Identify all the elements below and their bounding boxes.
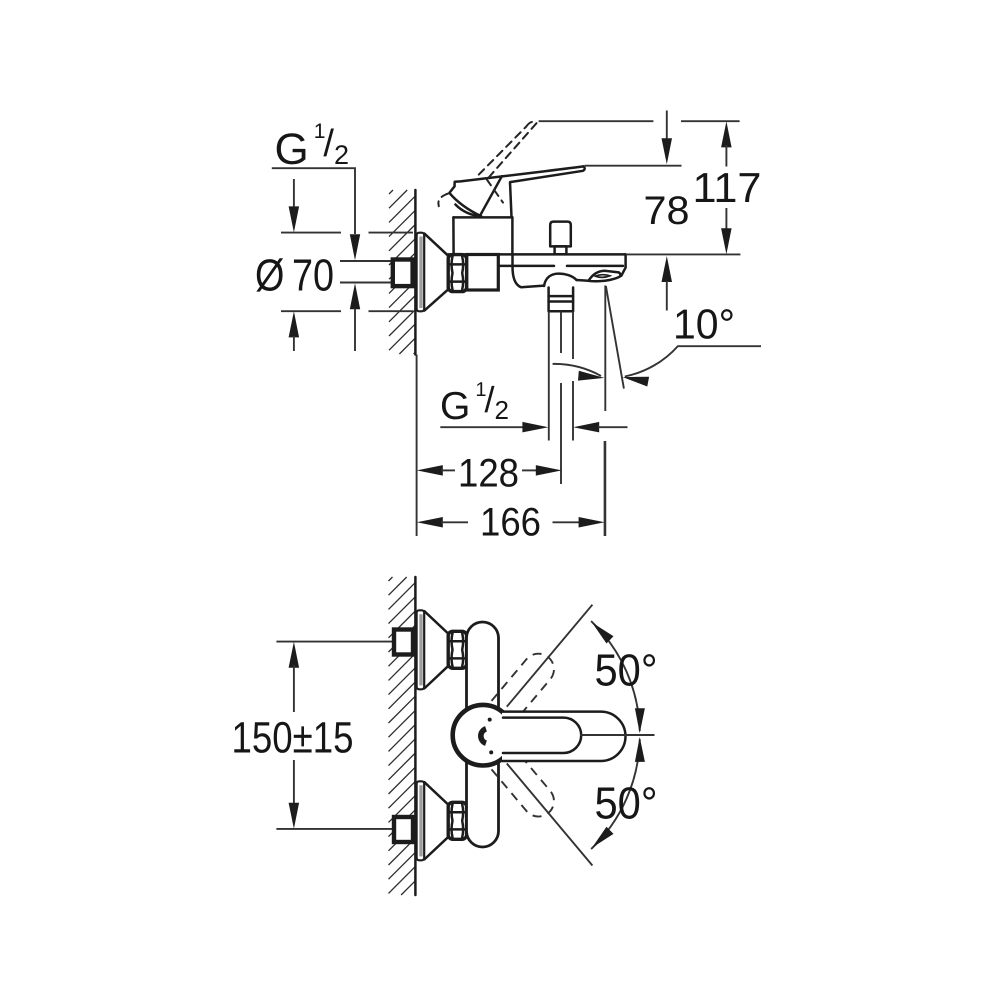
- lever axis centre line: [580, 734, 655, 736]
- upper square pipe nut: [394, 630, 413, 655]
- cartridge circle (bottom view): [453, 705, 514, 766]
- svg-text:G1/2: G1/2: [275, 120, 350, 174]
- dimension 166: [417, 517, 443, 528]
- spout top edge: [448, 253, 626, 256]
- lower escutcheon cone (bottom view): [424, 782, 448, 859]
- diverter knob: [550, 222, 571, 247]
- lever raised position (dashed): [438, 122, 537, 207]
- upper 50 deg arc with arrows: [591, 621, 640, 731]
- svg-text:10°: 10°: [673, 301, 735, 348]
- 10 deg angle arc (left part) with arrow: [553, 364, 601, 376]
- diverter stem: [555, 246, 567, 254]
- extension line from spout top to the right: [626, 253, 741, 255]
- svg-text:78: 78: [644, 189, 690, 233]
- tilted water stream line (10 deg): [606, 286, 624, 389]
- wall surface line (bottom view): [414, 577, 417, 895]
- svg-text:50°: 50°: [595, 645, 658, 696]
- svg-text:117: 117: [693, 164, 762, 211]
- dimension O70 extension lines: [281, 233, 413, 312]
- upper supply pipe centre line / 150 extension: [276, 641, 392, 643]
- wall surface extension line down to 128/166 dims: [416, 355, 418, 537]
- cartridge face marks: [481, 729, 486, 743]
- spout slab bottom edge: [498, 265, 623, 268]
- faucet body bar (bottom view): [467, 622, 499, 847]
- lever rotated +50 deg (dashed): [487, 654, 554, 726]
- dimension O70 arrows: [293, 179, 295, 208]
- spout outlet lip: [589, 271, 621, 282]
- wall hatching (top view): [389, 190, 415, 354]
- upper escutcheon cone (bottom view): [424, 611, 448, 688]
- dimension 128: [417, 465, 443, 476]
- 10 deg angle arc (right part, leader to label) with arrow: [625, 346, 761, 376]
- aerator dome around hose connector: [544, 274, 577, 286]
- shower hose outline lines: [549, 312, 573, 441]
- extension line from lever top: [585, 165, 682, 167]
- dimension 78: line and arrows: [666, 111, 668, 142]
- dimension 117: line and arrows: [721, 121, 732, 147]
- svg-text:Ø 70: Ø 70: [255, 250, 334, 301]
- square pipe nut behind wall (top view): [393, 260, 413, 287]
- svg-text:G1/2: G1/2: [440, 379, 509, 428]
- rear body contour under collar: [513, 255, 545, 288]
- hose centre extension line: [560, 312, 562, 485]
- supply pipe lines (top view): [340, 260, 391, 262]
- cartridge dome under lever: [455, 205, 481, 217]
- connection hex nut (top view): [448, 255, 466, 292]
- escutcheon base disc (top view): [417, 233, 425, 312]
- wall surface line (top view): [414, 190, 417, 355]
- extension line from raised lever tip: [539, 120, 740, 122]
- svg-text:128: 128: [458, 451, 519, 495]
- lower 50 deg arc with arrows: [591, 739, 640, 849]
- lever back edge to boss: [480, 176, 502, 215]
- svg-text:166: 166: [480, 500, 541, 544]
- svg-text:150±15: 150±15: [232, 714, 354, 763]
- lower square pipe nut: [394, 817, 413, 842]
- G 1/2 dimension line with arrows at hose: [440, 426, 524, 428]
- cartridge collar: [453, 217, 512, 254]
- lower supply pipe centre line / 150 extension: [276, 828, 392, 830]
- upper hex nut (bottom view): [448, 631, 466, 668]
- lower escutcheon base disc (bottom view): [417, 781, 425, 860]
- shower hose connector: [549, 287, 574, 311]
- lever top face (bottom view): [503, 718, 581, 753]
- lower hex nut (bottom view): [448, 802, 466, 839]
- body block bottom edge: [467, 289, 499, 292]
- upper 50 deg ray: [507, 605, 593, 707]
- underside between dome and outlet lip: [577, 279, 589, 282]
- extension line at spout tip for 166: [604, 441, 606, 536]
- wall hatching (bottom view): [389, 577, 416, 895]
- spout right end edge: [621, 254, 625, 275]
- vertical reference line from spout outlet: [604, 286, 606, 537]
- dimension 150 +/- 15: [289, 642, 300, 668]
- valve body block (top view): [467, 255, 499, 291]
- escutcheon cone (top view): [424, 234, 448, 311]
- lever silhouette (bottom view): [502, 712, 626, 761]
- lever handle (solid, closed position): [455, 166, 584, 186]
- svg-text:50°: 50°: [595, 777, 658, 828]
- upper escutcheon base disc (bottom view): [417, 610, 425, 689]
- leader under G 1/2: [272, 168, 355, 234]
- lever rotated -50 deg (dashed): [487, 744, 554, 816]
- lower 50 deg ray: [507, 764, 593, 866]
